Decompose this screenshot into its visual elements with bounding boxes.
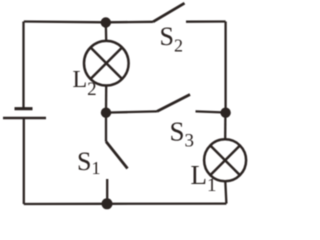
lamp L1 cross stroke 2 bbox=[210, 146, 240, 176]
wire: left side, bottom corner up to battery positive plate bbox=[23, 118, 25, 204]
lamp L2 cross stroke 1 bbox=[91, 48, 122, 79]
wire: switch S1 lower contact down to node D bbox=[106, 179, 108, 204]
wire: switch S2 right contact to top-right corner bbox=[186, 20, 226, 23]
wire: battery negative plate up to top-left corner bbox=[22, 22, 24, 108]
wire: lamp L2 bottom to node C bbox=[105, 86, 107, 113]
wire: top horizontal, left corner to node A bbox=[24, 20, 106, 23]
wire: node C down to switch S1 pivot bbox=[105, 113, 107, 142]
switch S1 lever (open) bbox=[106, 142, 128, 169]
wire: lamp L1 bottom to bottom-right corner bbox=[225, 181, 226, 203]
node A (top junction dot) bbox=[101, 17, 111, 27]
wire: node C right to switch S3 left contact bbox=[106, 111, 157, 112]
switch S3 lever (open) bbox=[157, 95, 190, 112]
lamp L1 (circle) bbox=[204, 139, 246, 181]
wire: right side, top-right corner down to node B bbox=[224, 22, 226, 113]
battery positive plate (long) bbox=[3, 117, 46, 119]
battery negative plate (short) bbox=[15, 107, 33, 110]
wire: switch S3 right contact to node B bbox=[196, 111, 226, 112]
wire: bottom horizontal, right corner to node D bbox=[107, 202, 226, 204]
node D (bottom junction dot) bbox=[102, 198, 113, 209]
wire: node A to switch S2 left contact bbox=[106, 21, 153, 24]
lamp L1 cross stroke 1 bbox=[210, 146, 240, 176]
node B (right junction dot) bbox=[220, 108, 230, 118]
wire: bottom horizontal, node D to bottom-left corner bbox=[24, 203, 107, 205]
wire: node A down to lamp L2 bbox=[105, 23, 108, 42]
node C (middle junction dot) bbox=[101, 108, 111, 118]
wire: node B down to lamp L1 bbox=[224, 113, 226, 140]
lamp L2 cross stroke 2 bbox=[91, 48, 122, 79]
switch S2 lever (open) bbox=[153, 3, 185, 22]
lamp L2 (circle) bbox=[84, 41, 129, 86]
